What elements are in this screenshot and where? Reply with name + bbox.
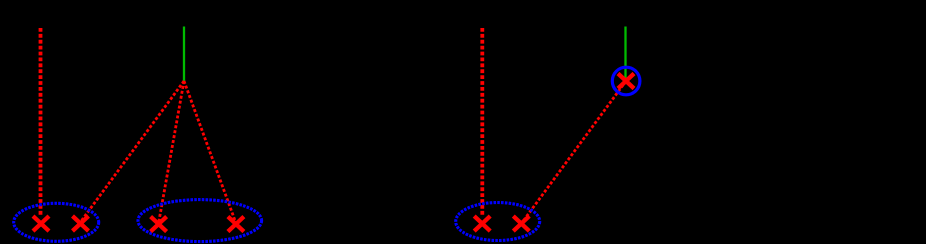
node F: red X marker (482.2,223.6) — [474, 216, 490, 231]
node B: red X marker (80.5,223.5) — [73, 216, 89, 231]
node cluster: left blue dashed ellipse 1 — [14, 203, 99, 241]
node: blue circle around top X — [612, 67, 640, 95]
node C: red X marker (158.6,224.1) — [151, 217, 167, 232]
node E: red X marker in circle (626,81) — [618, 74, 634, 89]
node cluster: right blue dashed ellipse — [456, 203, 540, 241]
wire: red dashed fan line to node (235.9,224) — [184, 81, 236, 223]
wire: right green vertical line — [624, 27, 626, 79]
wire: left red dotted vertical line — [39, 28, 43, 216]
wire: right red dashed diagonal line — [521, 81, 626, 224]
wire: right red dotted vertical line — [480, 28, 484, 215]
node D: red X marker (235.9,224.1) — [228, 217, 244, 232]
node A: red X marker (41,223.6) — [33, 216, 49, 231]
wire: left green vertical line — [183, 27, 185, 82]
wire: red dashed fan line to node (80.5,223) — [81, 81, 185, 222]
wire: red dashed fan line to node (158.6,224) — [159, 81, 184, 223]
node G: red X marker (521.3,223.6) — [513, 216, 529, 231]
node cluster: left blue dashed ellipse 2 — [138, 200, 262, 242]
